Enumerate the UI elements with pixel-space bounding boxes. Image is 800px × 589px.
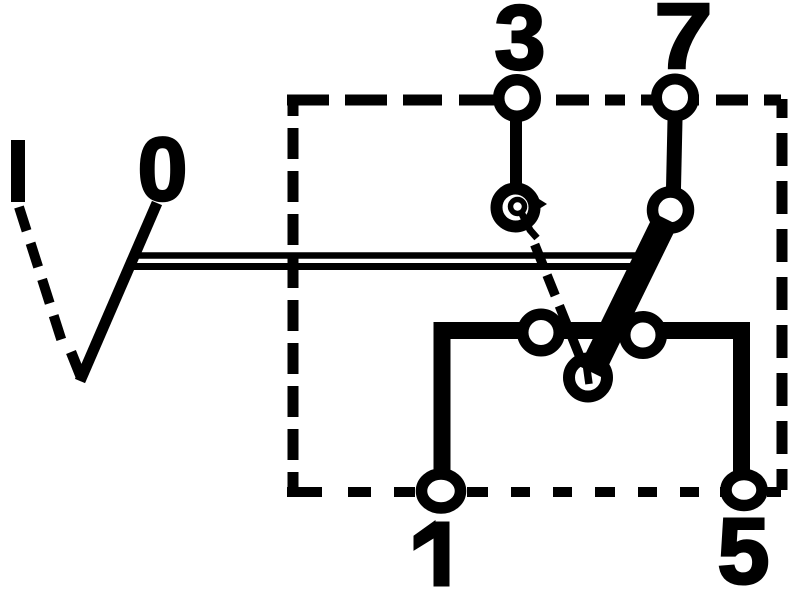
svg-text:5: 5	[718, 499, 770, 589]
svg-text:3: 3	[494, 0, 545, 89]
svg-text:7: 7	[654, 0, 712, 89]
svg-text:0: 0	[137, 120, 187, 220]
